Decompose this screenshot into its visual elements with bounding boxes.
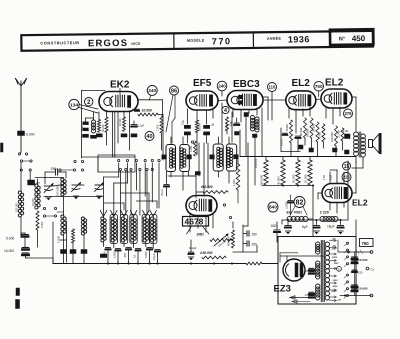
- wire secondary bottom: [340, 294, 373, 297]
- tube EK2: [99, 80, 138, 112]
- detector resistor 10.000: [304, 160, 313, 185]
- wire switch feeds: [120, 171, 147, 215]
- capacitor 0,1uF det: [188, 240, 196, 260]
- node 86: [170, 86, 179, 95]
- wire mid horizontal: [168, 175, 196, 177]
- svg-text:5.000: 5.000: [144, 251, 148, 258]
- svg-text:40.000: 40.000: [277, 176, 281, 185]
- resistor 1.250: [190, 141, 196, 156]
- detector resistor 40.000: [277, 160, 286, 185]
- wire horiz 183: [104, 177, 119, 215]
- coil left 3: [81, 217, 86, 235]
- label 250: [123, 252, 127, 258]
- resistor 1.000 el2b: [337, 128, 345, 141]
- resistor 1.000 det: [232, 157, 240, 204]
- rail 185: [262, 185, 313, 187]
- svg-text:1936: 1936: [288, 34, 310, 44]
- ground blobs: [61, 250, 88, 264]
- svg-text:16Ω: 16Ω: [271, 224, 278, 228]
- svg-text:6.000: 6.000: [26, 133, 35, 137]
- label 450.000 diag: [218, 239, 227, 247]
- wire coil bank grounds: [104, 242, 154, 249]
- wire jog c: [136, 201, 157, 208]
- capacitor EZ3 hv1: [305, 268, 316, 273]
- svg-text:134: 134: [70, 102, 78, 108]
- terminal Cy: [366, 267, 375, 271]
- svg-text:240: 240: [218, 84, 226, 89]
- wire: [162, 115, 164, 151]
- svg-text:15: 15: [344, 164, 350, 170]
- capacitor EF5 a: [182, 120, 191, 143]
- wire: [21, 179, 38, 247]
- antenna: [16, 79, 27, 93]
- resistor 600.000 horiz: [196, 185, 228, 193]
- svg-text:100.000: 100.000: [16, 202, 19, 212]
- coil antenna L1: [16, 191, 24, 217]
- svg-text:Exc 700Ω: Exc 700Ω: [287, 211, 303, 215]
- terminal mid: [223, 204, 231, 219]
- power transformer secondary: [325, 242, 329, 300]
- svg-text:4: 4: [224, 108, 227, 114]
- svg-text:130V: 130V: [333, 280, 339, 282]
- svg-text:+4V: +4V: [337, 299, 341, 302]
- svg-text:7.000: 7.000: [157, 124, 160, 131]
- resistor 50.000 EK2: [102, 117, 108, 145]
- svg-text:-4V: -4V: [332, 245, 336, 248]
- svg-text:250: 250: [252, 243, 258, 247]
- wire bus riser left: [53, 221, 67, 264]
- svg-text:EF5: EF5: [193, 78, 212, 89]
- resistor 10.000 AVC: [135, 109, 163, 116]
- band switch contacts: [43, 207, 63, 217]
- capacitor row: [106, 248, 161, 252]
- wire: [189, 172, 197, 199]
- wire EF5 pin drops: [199, 143, 208, 196]
- svg-text:240: 240: [148, 88, 156, 94]
- label 4.50 vert: [323, 175, 333, 180]
- svg-text:4678: 4678: [185, 217, 204, 227]
- svg-text:CONSTRUCTEUR: CONSTRUCTEUR: [40, 40, 79, 45]
- label 0,1uF: [152, 253, 156, 260]
- resistor 25.000: [306, 118, 314, 138]
- choke S216: [319, 211, 338, 222]
- label 0,1: [133, 254, 137, 258]
- IF can 1b: [180, 145, 192, 172]
- svg-text:6.000: 6.000: [285, 124, 289, 131]
- label 100.000 ebc3: [254, 158, 258, 168]
- resistor EBC3 grid: [226, 117, 229, 134]
- svg-text:0,1μF: 0,1μF: [152, 253, 156, 260]
- node 82: [290, 197, 307, 216]
- transformer taps: [330, 239, 337, 301]
- wire: [45, 172, 66, 184]
- node 110: [268, 83, 277, 92]
- wire antenna down: [20, 92, 22, 131]
- IF can 2a: [210, 144, 224, 171]
- svg-text:N°: N°: [339, 36, 345, 42]
- svg-text:100.000: 100.000: [254, 158, 258, 168]
- capacitor 0,1uF EK2 mid: [130, 112, 145, 150]
- capacitor 1.00: [343, 129, 351, 139]
- svg-text:10.000: 10.000: [358, 258, 368, 262]
- svg-text:5.000: 5.000: [113, 251, 117, 258]
- svg-text:Σ 216: Σ 216: [319, 211, 329, 215]
- wire EBC3 drops: [232, 108, 262, 185]
- svg-text:10.000: 10.000: [142, 109, 152, 113]
- capacitor blobs el2: [299, 145, 350, 154]
- antenna switch terminals: [18, 152, 27, 155]
- svg-text:4.50.000: 4.50.000: [199, 251, 213, 255]
- node 840: [268, 202, 278, 212]
- capacitor 6.000 antenna: [18, 131, 35, 137]
- wire top link EF5-EBC3: [218, 99, 227, 102]
- wire EL2a pins: [289, 107, 310, 133]
- svg-text:1.250: 1.250: [190, 145, 193, 152]
- label 1.500: [103, 251, 107, 258]
- svg-text:250: 250: [252, 233, 258, 237]
- node 4: [222, 106, 229, 114]
- tube EL2 output 1: [286, 78, 316, 110]
- capacitor 0,1uF EK2: [81, 118, 94, 137]
- wire: [221, 91, 223, 143]
- wire EBC3 to pot: [228, 185, 248, 240]
- left margin mark: [1, 143, 4, 152]
- wire EZ3: [280, 253, 324, 262]
- svg-text:50.000: 50.000: [198, 123, 202, 131]
- svg-text:ERGOS: ERGOS: [88, 38, 128, 49]
- svg-text:10.900: 10.900: [286, 201, 289, 209]
- wire jog a: [104, 203, 125, 210]
- resistor 100.000 el2b: [330, 126, 338, 146]
- svg-text:750: 750: [315, 84, 323, 89]
- resistor 450.000: [199, 251, 226, 259]
- wire: [64, 196, 85, 252]
- svg-text:10.000: 10.000: [119, 118, 122, 126]
- filter rail: [282, 219, 348, 224]
- wire jog b: [120, 193, 149, 210]
- detector resistor 20.000: [292, 160, 301, 185]
- capacitor 150 mid: [352, 270, 363, 274]
- svg-text:600.000: 600.000: [227, 236, 231, 246]
- svg-text:840: 840: [269, 205, 277, 211]
- pointer line 134: [79, 105, 98, 114]
- svg-text:600.000: 600.000: [201, 185, 213, 189]
- label 5.000: [113, 251, 117, 258]
- capacitor blob under can1b: [195, 172, 200, 176]
- wire rail185 to bus: [312, 186, 314, 237]
- label 2.310: [225, 123, 229, 130]
- wire bus to power box: [276, 237, 278, 242]
- tube EBC3: [227, 79, 263, 110]
- wire EL2 tops: [316, 91, 321, 99]
- svg-text:20.000: 20.000: [312, 123, 316, 132]
- wire EK2 center pins: [113, 112, 115, 157]
- wire 750: [355, 220, 357, 237]
- wire B+ riser: [347, 161, 349, 220]
- ink mark: [16, 288, 20, 309]
- coil bank IF/osc: [101, 215, 157, 244]
- wire secondary top: [338, 250, 373, 254]
- capacitor block 1,5: [28, 180, 41, 185]
- svg-text:.250: .250: [123, 252, 127, 258]
- selector zero: [337, 266, 342, 271]
- capacitor 16ohm: [271, 222, 281, 237]
- tube EL2 output 3: [322, 184, 368, 208]
- junction dots bus: [107, 263, 233, 265]
- capacitor EF5 b: [204, 125, 210, 143]
- terminal pair 2: [20, 169, 31, 171]
- capacitor 8uF: [302, 220, 320, 234]
- svg-text:ANNÉE: ANNÉE: [267, 36, 282, 41]
- node 134: [69, 99, 79, 109]
- wire to bus: [108, 251, 158, 264]
- wire switch drops: [119, 163, 159, 208]
- potentiometer 2Mohm: [196, 233, 233, 247]
- node 2: [85, 98, 93, 106]
- tube EZ3: [274, 259, 306, 295]
- resistor: [57, 229, 75, 243]
- svg-text:2MΩ: 2MΩ: [196, 233, 205, 237]
- svg-text:EL2: EL2: [352, 198, 368, 208]
- svg-text:150V: 150V: [334, 263, 340, 265]
- capacitor 250: [45, 167, 66, 175]
- choke Exc 700: [287, 211, 309, 222]
- resistor 40.000 b: [299, 118, 307, 138]
- wire EK2 pins: [107, 111, 119, 144]
- choke EBC3 a: [250, 116, 254, 132]
- svg-text:0,1μ: 0,1μ: [182, 120, 185, 125]
- coil feed funnels: [100, 211, 156, 217]
- capacitor 10.000 a: [352, 257, 368, 263]
- node 240 a: [147, 85, 157, 95]
- 4678 pointer legs: [187, 227, 210, 234]
- svg-text:100.000: 100.000: [56, 185, 60, 196]
- junction dots rail: [282, 185, 342, 222]
- svg-text:82: 82: [296, 199, 304, 206]
- svg-text:EZ3: EZ3: [274, 284, 291, 295]
- svg-text:4.50: 4.50: [323, 175, 326, 180]
- wire rail drops: [266, 157, 310, 161]
- ground bus: [53, 262, 278, 265]
- svg-text:1.000: 1.000: [41, 221, 44, 228]
- svg-text:0,1μF: 0,1μF: [138, 124, 145, 128]
- node 40: [145, 132, 154, 141]
- wire can feed: [162, 150, 164, 160]
- wire grid caps: [271, 92, 273, 121]
- svg-text:10.000: 10.000: [32, 198, 35, 206]
- label 750 boxed: [360, 239, 374, 247]
- wire EL2c: [330, 170, 356, 193]
- wire det area: [233, 222, 257, 252]
- screen rail: [240, 156, 356, 158]
- svg-text:40: 40: [146, 134, 152, 140]
- tap switch contacts: [344, 242, 349, 298]
- wire EL2c anode up: [330, 169, 337, 171]
- resistor 20.000 b: [312, 122, 320, 142]
- svg-text:750: 750: [362, 241, 370, 246]
- svg-text:10.000: 10.000: [358, 287, 368, 291]
- svg-text:8μ: 8μ: [211, 123, 215, 126]
- node 240 b: [217, 81, 227, 91]
- wire 86 drop: [166, 95, 175, 143]
- resistor EL2a grid 6.000: [285, 120, 293, 143]
- svg-text:1.000: 1.000: [337, 130, 341, 137]
- svg-text:110: 110: [269, 85, 277, 90]
- capacitor 16uF: [327, 220, 344, 234]
- svg-text:110V: 110V: [332, 248, 337, 250]
- resistor 4.000: [318, 124, 326, 142]
- svg-text:EBC3: EBC3: [233, 79, 260, 90]
- svg-text:40.000: 40.000: [299, 127, 303, 136]
- resistor 10.000 EK2: [119, 111, 127, 137]
- wire OT down: [356, 157, 363, 163]
- capacitor 10.000 b: [352, 285, 368, 291]
- svg-text:EL2: EL2: [325, 78, 344, 89]
- capacitor EZ3 hv2: [305, 292, 316, 297]
- svg-text:0,1μF: 0,1μF: [189, 246, 197, 250]
- resistor 7.000: [157, 116, 164, 150]
- speaker: [369, 134, 381, 153]
- svg-text:+4V: +4V: [332, 238, 336, 241]
- svg-text:86: 86: [171, 89, 177, 95]
- coil 100.000: [56, 178, 67, 196]
- capacitor 10.900: [286, 195, 294, 215]
- svg-text:25.000: 25.000: [306, 128, 310, 137]
- coil left 2: [61, 215, 66, 235]
- svg-text:MODÈLE: MODÈLE: [187, 38, 205, 43]
- output transformer: [354, 132, 366, 157]
- wire: [20, 136, 22, 153]
- resistor antenna: [36, 211, 44, 230]
- capacitor 250 a: [243, 231, 257, 237]
- wire varcap links: [44, 185, 104, 187]
- label 16.000 capacitor: [4, 237, 29, 256]
- wire horiz2: [114, 183, 128, 215]
- varcap ground rail: [44, 196, 104, 198]
- wire horiz 177: [35, 177, 64, 179]
- svg-text:4.50: 4.50: [330, 175, 333, 180]
- power transformer core: [321, 241, 324, 302]
- resistor 600.000 vert: [227, 230, 235, 248]
- title block header: [21, 29, 373, 51]
- wire EL2c pins: [318, 193, 344, 213]
- wire el2 links: [281, 128, 343, 157]
- capacitor 16ohm b: [285, 221, 291, 234]
- coil antenna L2: [32, 184, 40, 209]
- node 15: [343, 162, 351, 170]
- coil EK2 cathode: [91, 112, 97, 138]
- mains lead: [290, 296, 314, 303]
- svg-text:220V: 220V: [331, 291, 338, 293]
- wire secondary vert: [338, 240, 355, 296]
- wire EBC3 pins: [233, 108, 257, 122]
- IF can 1a: [162, 145, 176, 172]
- variable capacitor C2: [72, 183, 81, 200]
- choke EBC3 b: [253, 117, 260, 138]
- terminal pair 1: [20, 160, 32, 162]
- capacitor 250 b: [243, 241, 257, 247]
- capacitor 0,5-12: [161, 172, 169, 197]
- capacitor EL2a: [296, 136, 301, 151]
- svg-text:4.000: 4.000: [318, 132, 322, 139]
- switch box outline: [98, 155, 135, 172]
- wire right vert: [352, 161, 363, 186]
- svg-text:110V: 110V: [333, 286, 338, 288]
- svg-text:500.000: 500.000: [260, 174, 264, 185]
- wire anode EBC3: [263, 97, 268, 120]
- svg-text:NICE: NICE: [131, 42, 141, 46]
- svg-text:20.000: 20.000: [292, 174, 296, 183]
- svg-text:1.00: 1.00: [343, 129, 349, 133]
- node 750: [314, 81, 324, 91]
- svg-text:770: 770: [212, 36, 232, 46]
- switch row 2: [59, 168, 153, 171]
- svg-text:EL2: EL2: [292, 78, 311, 89]
- svg-text:10.000: 10.000: [304, 174, 308, 183]
- wire EK2 box left: [82, 91, 106, 159]
- label 0,5-12 el2: [281, 133, 288, 146]
- svg-text:50.000: 50.000: [102, 124, 105, 132]
- svg-text:16.000: 16.000: [4, 249, 14, 253]
- wire: [21, 163, 30, 192]
- transformer tap labels: [331, 238, 342, 302]
- svg-text:16μF: 16μF: [327, 225, 335, 229]
- wire anode to OT: [352, 97, 356, 131]
- svg-text:0,5-12: 0,5-12: [161, 189, 164, 196]
- svg-text:5.000: 5.000: [6, 237, 14, 241]
- svg-text:125V: 125V: [332, 257, 338, 259]
- variable capacitor C1: [44, 184, 53, 201]
- wire top link EBC3-EL2: [263, 99, 286, 101]
- node 275: [344, 109, 353, 118]
- wire EF5 pins: [188, 108, 214, 124]
- label 15 ebc3: [230, 120, 233, 126]
- svg-text:100.000: 100.000: [330, 132, 334, 142]
- svg-text:1.500: 1.500: [103, 251, 107, 258]
- wire 240a drop: [149, 95, 151, 100]
- power transformer primary: [316, 242, 320, 300]
- capacitor blob ebc3: [244, 113, 249, 157]
- wire EL2b pins: [326, 107, 340, 124]
- wire IF cans: [171, 137, 229, 190]
- wire horiz: [82, 157, 135, 172]
- label 8u ef5: [211, 123, 215, 126]
- resistor EF5 50.000: [195, 120, 201, 155]
- svg-text:8μF: 8μF: [302, 225, 308, 229]
- wire EK2 anode: [139, 100, 163, 116]
- ground bar coil1: [100, 254, 107, 258]
- label 5.000 capacitor: [6, 233, 28, 241]
- node 225: [342, 173, 351, 182]
- svg-text:2: 2: [87, 99, 91, 106]
- tube EL2 output 2: [321, 78, 352, 109]
- svg-text:1.000: 1.000: [57, 236, 61, 243]
- svg-text:450: 450: [352, 34, 366, 43]
- detector resistor 500.000: [260, 160, 269, 185]
- label 5.000 b: [144, 251, 148, 258]
- svg-text:275: 275: [344, 111, 352, 116]
- wire: [26, 255, 54, 264]
- terminal ef5: [191, 141, 193, 143]
- tube EF5: [186, 78, 218, 110]
- variable capacitor C3: [95, 183, 104, 200]
- resistor 500 EK2: [96, 112, 102, 137]
- switch row 1: [74, 159, 160, 162]
- wire 4678 pins: [190, 213, 213, 232]
- svg-text:0,5-12: 0,5-12: [281, 139, 284, 146]
- svg-text:150: 150: [358, 271, 363, 275]
- svg-text:0,1: 0,1: [133, 254, 137, 258]
